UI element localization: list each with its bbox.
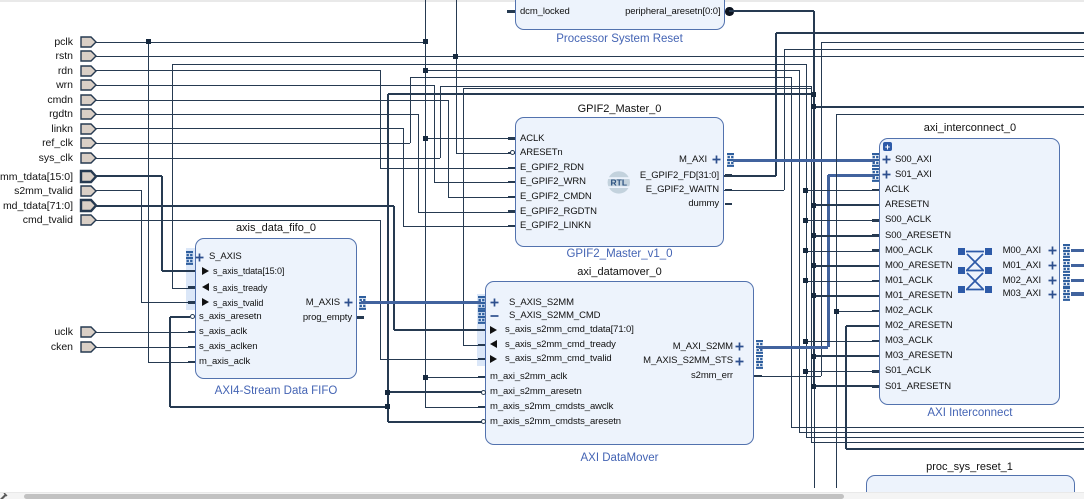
pin S01_ARESETN bbox=[885, 382, 951, 392]
port cmd_tdata[71:0] bbox=[79, 198, 98, 213]
wire clock feed bbox=[806, 190, 873, 192]
bus M_AXI to S00_AXI bbox=[733, 159, 875, 162]
pin E_GPIF2_FD[31:0] bbox=[640, 171, 719, 181]
interconnect crossbar icon bbox=[957, 247, 997, 295]
pin stub S00_ACLK bbox=[872, 219, 879, 221]
pin M03_ARESETN bbox=[885, 351, 953, 361]
wire rstn to ARESETn bbox=[456, 153, 510, 155]
wire aresetn left vertical bbox=[387, 94, 390, 422]
wire clock feed bbox=[806, 341, 873, 343]
inversion bubble cmdsts_aresetn bbox=[481, 419, 486, 424]
wire aresetn left branch row bbox=[388, 93, 814, 96]
wire wrn horizontal bbox=[96, 85, 434, 87]
pin stub M00_ACLK bbox=[872, 249, 879, 251]
pin stub M01_ACLK bbox=[872, 280, 879, 282]
bus M_AXI_S2MM horizontal bbox=[759, 346, 828, 349]
wire reset feed bbox=[814, 385, 873, 388]
wire s_axis_tready vertical bbox=[172, 64, 174, 288]
pin stub fifo left bbox=[188, 301, 195, 303]
wire pclk branch exit row bbox=[799, 432, 1084, 434]
port ref_clk bbox=[79, 136, 98, 150]
wire cmd_tvalid horizontal bbox=[96, 220, 380, 222]
bus stub M01_AXI bbox=[1071, 264, 1084, 267]
port s2mm_tvalid bbox=[79, 184, 98, 198]
wire reset feed bbox=[814, 265, 873, 268]
junction reset feed bbox=[811, 293, 816, 298]
expand icon bbox=[883, 142, 892, 151]
svg-text:RTL: RTL bbox=[611, 177, 628, 187]
junction clock feed bbox=[803, 369, 808, 374]
wire cmd_tready row bbox=[463, 88, 812, 90]
wire rdn vertical bbox=[380, 70, 382, 168]
label AXI DataMover bbox=[581, 452, 659, 464]
wire aresetn fifo vertical bbox=[169, 317, 172, 407]
wire cmdn to E_GPIF2_CMDN bbox=[448, 197, 515, 199]
label Processor System Reset bbox=[556, 33, 683, 45]
wire linkn to E_GPIF2_LINKN bbox=[403, 226, 515, 228]
wire linkn horizontal bbox=[96, 128, 403, 130]
pin stub GPIF2 left bbox=[508, 181, 515, 183]
wire cmd_tvalid to s_axis_s2mm_cmd_tvalid bbox=[380, 359, 485, 361]
wire M02_ACLK feed bbox=[836, 311, 873, 313]
interface connector M02_AXI bbox=[1063, 274, 1071, 288]
junction aresetn branch bbox=[811, 92, 816, 97]
wire clock feed bbox=[806, 220, 873, 222]
pin E_GPIF2_WAITN bbox=[646, 185, 719, 195]
pin s_axis_s2mm_cmd_tvalid bbox=[490, 355, 497, 363]
pin stub prog_empty bbox=[357, 316, 364, 318]
wire trunk thin tail bbox=[814, 386, 816, 488]
wire s_axis_tready row bbox=[172, 64, 806, 66]
pin stub dcm_locked bbox=[507, 10, 515, 12]
wire sys_clk up vertical bbox=[440, 86, 442, 158]
title axi_interconnect_0 bbox=[924, 122, 1016, 134]
pin M03_ACLK bbox=[885, 336, 933, 346]
label GPIF2_Master_v1_0 bbox=[566, 248, 672, 260]
junction reset feed bbox=[811, 263, 816, 268]
scrollbar corner arrow bbox=[0, 493, 8, 499]
port cmdn bbox=[79, 93, 98, 107]
top window edge strip bbox=[0, 0, 1084, 2]
interface connector S01_AXI bbox=[872, 168, 880, 182]
pin stub E_GPIF2_WAITN bbox=[725, 189, 733, 191]
port sys_clk bbox=[79, 151, 98, 165]
wire s2mm_tdata horizontal bbox=[96, 175, 162, 178]
wire rdn horizontal bbox=[96, 70, 380, 72]
pin M_AXI bbox=[679, 155, 707, 165]
expanded interface band S_AXIS_S2MM_CMD bbox=[477, 294, 485, 366]
wire s2mm_err horizontal bbox=[759, 376, 821, 378]
pin s_axis_tvalid bbox=[202, 298, 209, 306]
pin stub M02_ACLK bbox=[872, 310, 879, 312]
interface connector M_AXI bbox=[727, 153, 735, 167]
pin E_GPIF2_RGDTN bbox=[520, 207, 597, 217]
pin ACLK bbox=[885, 185, 909, 195]
bus stub M03_AXI bbox=[1071, 292, 1084, 295]
pin stub datamover left bbox=[478, 329, 485, 331]
bus stub M00_AXI bbox=[1071, 249, 1084, 252]
pin s_axis_tready bbox=[202, 283, 209, 291]
pin stub M01_ARESETN bbox=[872, 295, 879, 297]
wire s_axis_tready stub bbox=[172, 288, 195, 290]
bus M_AXI_S2MM vertical bbox=[827, 175, 830, 347]
pin stub ARESETN bbox=[872, 204, 879, 206]
interface connector S_AXIS_S2MM_CMD bbox=[478, 310, 486, 324]
pin stub GPIF2 left bbox=[508, 210, 515, 212]
wire aresetn to m_axi_s2mm_aresetn bbox=[388, 391, 482, 394]
interface connector M03_AXI bbox=[1063, 287, 1071, 301]
wire rgdtn vertical bbox=[418, 114, 420, 212]
wire sys_clk horizontal bbox=[96, 158, 440, 160]
junction pclk bbox=[146, 39, 151, 44]
wire E_GPIF2_FD horizontal bbox=[724, 175, 776, 178]
inversion bubble s_axis_aresetn bbox=[190, 314, 195, 319]
pin S_AXIS_S2MM bbox=[490, 298, 499, 307]
pin s_axis_s2mm_cmd_tready bbox=[490, 340, 497, 348]
wire s2mm_tdata vertical bbox=[161, 176, 164, 271]
wire ref_clk row bbox=[410, 77, 791, 79]
RTL badge bbox=[607, 171, 631, 194]
pin s_axis_aclk bbox=[199, 327, 247, 337]
wire reset feed bbox=[814, 355, 873, 358]
wire ref_clk up vertical bbox=[410, 77, 412, 143]
wire cmd_tdata to s_axis_s2mm_cmd_tdata bbox=[394, 329, 485, 332]
wire pclk branch vertical bbox=[799, 70, 801, 432]
junction clock feed bbox=[803, 339, 808, 344]
bus stub M02_AXI bbox=[1071, 279, 1084, 282]
wire clock trunk vertical bbox=[806, 64, 808, 437]
wire s2mm_err exit row bbox=[821, 42, 1084, 44]
pin E_GPIF2_LINKN bbox=[520, 221, 591, 231]
pin M02_AXI bbox=[1003, 276, 1041, 286]
pin m_axis_s2mm_cmdsts_aresetn bbox=[490, 417, 621, 427]
pin stub fifo left bbox=[188, 346, 195, 348]
block GPIF2_Master_0 bbox=[515, 117, 725, 248]
wire aresetn to s_axis_aresetn bbox=[170, 316, 190, 319]
wire ref_clk horizontal bbox=[96, 143, 410, 145]
pin stub datamover left bbox=[478, 344, 485, 346]
pin S00_ARESETN bbox=[885, 231, 951, 241]
title axis_data_fifo_0 bbox=[236, 222, 316, 234]
pin s_axis_aresetn bbox=[199, 312, 262, 322]
junction reset feed bbox=[811, 203, 816, 208]
wire peripheral_aresetn trunk bbox=[813, 11, 816, 386]
inversion bubble ARESETn bbox=[510, 150, 515, 155]
port cken bbox=[79, 340, 98, 354]
bus M_AXIS to S_AXIS_S2MM bbox=[361, 301, 481, 304]
wire cmd_tready vertical bbox=[463, 88, 465, 345]
pin S01_AXI bbox=[882, 170, 891, 179]
wire peripheral_aresetn horizontal bbox=[729, 10, 814, 13]
port wrn bbox=[79, 78, 98, 92]
wire pclk to m_axi_s2mm_aclk bbox=[425, 377, 485, 379]
port uclk bbox=[79, 325, 98, 339]
junction reset feed bbox=[811, 384, 816, 389]
wire clock trunk exit row bbox=[806, 437, 1084, 439]
pin stub M02_ARESETN bbox=[872, 325, 879, 327]
interface connector M01_AXI bbox=[1063, 259, 1071, 273]
pin stub GPIF2 left bbox=[508, 152, 515, 154]
pin M01_AXI bbox=[1003, 261, 1041, 271]
pin m_axis_s2mm_cmdsts_awclk bbox=[490, 402, 613, 412]
pin stub GPIF2 left bbox=[508, 137, 515, 139]
horizontal scrollbar track bbox=[0, 492, 1084, 499]
pin E_GPIF2_RDN bbox=[520, 163, 584, 173]
bus M_AXI_S2MM to S01_AXI bbox=[828, 174, 875, 177]
pin m_axi_s2mm_aresetn bbox=[490, 387, 582, 397]
wire rstn vertical bbox=[456, 0, 458, 153]
wire cmd_tdata vertical bbox=[393, 206, 396, 330]
pin M_AXI_S2MM bbox=[673, 342, 733, 352]
wire clock feed bbox=[806, 371, 873, 373]
wire s_axis_s2mm_cmd_tready stub bbox=[463, 345, 485, 347]
pin M01_ARESETN bbox=[885, 291, 953, 301]
title proc_sys_reset_1 bbox=[926, 461, 1013, 473]
pin M02_ACLK bbox=[885, 306, 933, 316]
wire E_GPIF2_FD exit row bbox=[776, 32, 1084, 35]
wire M02_ARESETN feed bbox=[846, 325, 873, 328]
wire sys_clk row bbox=[440, 86, 811, 88]
wire wrn to E_GPIF2_WRN bbox=[434, 182, 515, 184]
title GPIF2_Master_0 bbox=[578, 103, 662, 115]
junction clock feed bbox=[803, 188, 808, 193]
pin ARESETN bbox=[885, 200, 929, 210]
pin stub dummy bbox=[725, 203, 733, 205]
wire M02 reset vertical bbox=[845, 326, 848, 449]
pin M00_ACLK bbox=[885, 246, 933, 256]
label AXI Interconnect bbox=[927, 407, 1012, 419]
wire wrn vertical bbox=[434, 85, 436, 182]
junction clock feed bbox=[803, 278, 808, 283]
pin M00_ARESETN bbox=[885, 261, 953, 271]
wire M02 reset exit row bbox=[846, 448, 1084, 451]
pin stub GPIF2 left bbox=[508, 167, 515, 169]
pin stub fifo left bbox=[188, 286, 195, 288]
wire clock feed bbox=[806, 251, 873, 253]
wire cmdn horizontal bbox=[96, 100, 448, 102]
pin M_AXIS bbox=[306, 298, 340, 308]
pin stub M00_ARESETN bbox=[872, 265, 879, 267]
pin dummy bbox=[688, 199, 719, 209]
block axis_data_fifo_0 bbox=[195, 238, 358, 380]
pin stub S01_ARESETN bbox=[872, 385, 879, 387]
pin S01_ACLK bbox=[885, 366, 931, 376]
junction pclk bbox=[423, 39, 428, 44]
pin stub S01_ACLK bbox=[872, 370, 879, 372]
inversion bubble m_axi_s2mm_aresetn bbox=[481, 390, 486, 395]
junction aresetn fifo branch bbox=[385, 404, 390, 409]
wire pclk to m_axis_s2mm_cmdsts_awclk bbox=[425, 407, 485, 409]
junction aresetn right branch bbox=[811, 104, 816, 109]
wire aresetn right branch row bbox=[814, 106, 1084, 109]
pin stub GPIF2 left bbox=[508, 196, 515, 198]
pin s2mm_err bbox=[691, 371, 733, 381]
pin M02_ARESETN bbox=[885, 321, 953, 331]
wire clock feed bbox=[806, 281, 873, 283]
port s2mm_tdata[15:0] bbox=[79, 169, 98, 184]
wire sys_clk right vertical bbox=[811, 86, 813, 442]
pin S_AXIS bbox=[195, 253, 204, 262]
pin s_axis_s2mm_cmd_tdata[71:0] bbox=[490, 326, 497, 334]
wire s2mm_tvalid horizontal bbox=[96, 190, 141, 192]
block proc_sys_reset_0 (Processor System Reset, cut at top) bbox=[515, 0, 725, 30]
pin ACLK bbox=[520, 134, 544, 144]
interface connector S00_AXI bbox=[872, 153, 880, 167]
junction clock feed bbox=[803, 248, 808, 253]
expanded interface band S_AXIS bbox=[186, 248, 195, 310]
wire rgdtn to E_GPIF2_RGDTN bbox=[418, 212, 515, 214]
wire E_GPIF2_WAITN vertical bbox=[784, 49, 786, 190]
wire reset feed bbox=[814, 204, 873, 207]
pin M01_ACLK bbox=[885, 276, 933, 286]
wire s2mm_err vertical bbox=[821, 42, 823, 376]
pin m_axis_aclk bbox=[199, 357, 250, 367]
output dot peripheral_aresetn bbox=[725, 7, 734, 16]
interface connector M_AXIS bbox=[359, 296, 367, 310]
port linkn bbox=[79, 122, 98, 136]
wire aresetn to fifo row bbox=[170, 406, 388, 409]
pin stub fifo left bbox=[188, 331, 195, 333]
junction reset feed bbox=[811, 354, 816, 359]
wire M02 clock row bbox=[836, 114, 1084, 116]
pin stub fifo left bbox=[188, 270, 195, 272]
pin M_AXIS_S2MM_STS bbox=[643, 356, 733, 366]
interface connector M_AXI_S2MM bbox=[756, 340, 764, 354]
pin m_axi_s2mm_aclk bbox=[490, 372, 567, 382]
pin s_axis_aclken bbox=[199, 342, 257, 352]
wire rstn horizontal bbox=[96, 56, 1084, 58]
junction pclk aclk bbox=[423, 375, 428, 380]
wire cmd_tvalid vertical bbox=[380, 220, 382, 359]
pin M03_AXI bbox=[1003, 289, 1041, 299]
pin stub GPIF2 left bbox=[508, 225, 515, 227]
pin stub S00_ARESETN bbox=[872, 234, 879, 236]
port rdn bbox=[79, 64, 98, 78]
wire reset feed bbox=[814, 235, 873, 238]
pin stub fifo left bbox=[188, 361, 195, 363]
junction M02_ACLK bbox=[834, 309, 839, 314]
wire s2mm_tvalid vertical bbox=[141, 190, 143, 302]
wire cmd_tdata horizontal bbox=[96, 205, 394, 208]
port rstn bbox=[79, 49, 98, 63]
junction clock feed bbox=[803, 218, 808, 223]
pin S00_AXI bbox=[882, 155, 891, 164]
pin stub M03_ACLK bbox=[872, 340, 879, 342]
wire sys_clk exit row bbox=[811, 442, 1084, 444]
junction pclk branch bbox=[423, 68, 428, 73]
pin E_GPIF2_WRN bbox=[520, 177, 586, 187]
block proc_sys_reset_1 (cut at bottom) bbox=[866, 475, 1076, 499]
wire s2mm_tvalid to s_axis_tvalid bbox=[141, 302, 195, 304]
pin stub datamover left bbox=[478, 358, 485, 360]
pin S00_ACLK bbox=[885, 215, 931, 225]
wire pclk to ACLK bbox=[425, 138, 515, 140]
interface connector M00_AXI bbox=[1063, 244, 1071, 258]
wire aresetn to cmdsts_aresetn bbox=[388, 421, 482, 424]
junction aresetn bbox=[385, 390, 390, 395]
pin S_AXIS_S2MM_CMD bbox=[490, 315, 499, 318]
interface connector M_AXIS_S2MM_STS bbox=[756, 355, 764, 369]
pin M00_AXI bbox=[1003, 246, 1041, 256]
junction pclk ACLK bbox=[423, 136, 428, 141]
block axi_interconnect_0 bbox=[879, 138, 1060, 405]
block axi_datamover_0 bbox=[485, 281, 754, 445]
pin s_axis_tdata[15:0] bbox=[202, 267, 209, 275]
wire uclk to s_axis_aclk bbox=[96, 332, 195, 334]
pin ARESETn bbox=[520, 148, 563, 158]
wire pclk branch row bbox=[425, 70, 799, 72]
wire E_GPIF2_WAITN horizontal bbox=[724, 190, 784, 192]
wire ref_clk exit row bbox=[791, 427, 1084, 429]
pin stub M03_ARESETN bbox=[872, 355, 879, 357]
label AXI4-Stream Data FIFO bbox=[215, 385, 338, 397]
pin stub datamover left bbox=[478, 406, 485, 408]
pin stub E_GPIF2_FD bbox=[725, 174, 733, 177]
wire pclk left vertical bbox=[148, 42, 150, 362]
interface connector S_AXIS bbox=[186, 251, 194, 265]
port rgdtn bbox=[79, 107, 98, 121]
pin stub ACLK bbox=[872, 189, 879, 191]
wire cmdn vertical bbox=[448, 100, 450, 197]
pin prog_empty bbox=[303, 313, 352, 323]
wire rgdtn horizontal bbox=[96, 114, 418, 116]
title axi_datamover_0 bbox=[577, 266, 661, 278]
wire pclk main vertical bbox=[425, 0, 427, 407]
pin stub datamover left bbox=[478, 376, 485, 378]
pin stub s2mm_err bbox=[754, 375, 762, 377]
wire E_GPIF2_FD vertical bbox=[775, 33, 778, 176]
wire rdn to E_GPIF2_RDN bbox=[380, 168, 515, 170]
pin E_GPIF2_CMDN bbox=[520, 192, 592, 202]
wire cken to s_axis_aclken bbox=[96, 347, 195, 349]
port cmd_tvalid bbox=[79, 213, 98, 227]
port pclk bbox=[79, 35, 98, 49]
wire pclk to m_axis_aclk bbox=[148, 362, 195, 364]
wire reset feed bbox=[814, 295, 873, 298]
wire M02 clock vertical bbox=[836, 114, 838, 488]
wire pclk horizontal bbox=[96, 42, 425, 44]
wire ref_clk right vertical bbox=[791, 77, 793, 427]
wire s2mm_tdata to s_axis_tdata bbox=[162, 270, 195, 273]
junction reset feed bbox=[811, 233, 816, 238]
wire E_GPIF2_WAITN exit row bbox=[784, 49, 1084, 51]
horizontal scrollbar thumb bbox=[24, 494, 844, 499]
wire linkn vertical bbox=[403, 128, 405, 226]
junction rstn bbox=[453, 54, 458, 59]
interface connector S_AXIS_S2MM bbox=[478, 296, 486, 310]
